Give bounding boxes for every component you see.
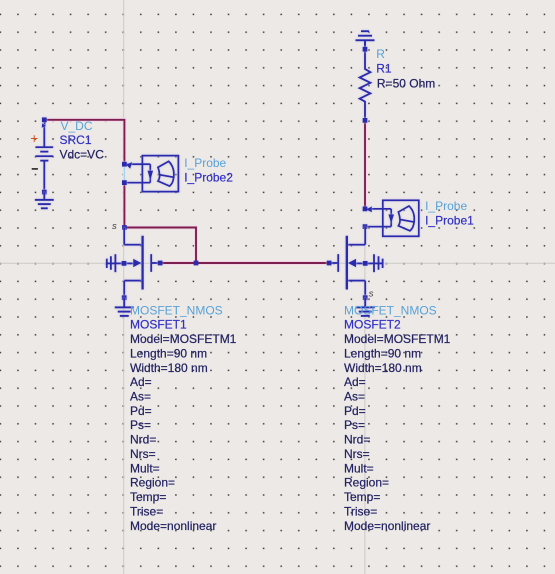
svg-text:V_DC: V_DC: [61, 119, 93, 133]
I_Probe1 direction arrows and node squares: [363, 206, 394, 229]
svg-text:Model=MOSFETM1: Model=MOSFETM1: [344, 332, 451, 346]
svg-text:As=: As=: [344, 390, 365, 404]
SRC1 minus polarity mark: [32, 168, 38, 170]
svg-text:Mode=nonlinear: Mode=nonlinear: [130, 519, 216, 533]
svg-text:MOSFET2: MOSFET2: [344, 318, 401, 332]
svg-text:Pd=: Pd=: [344, 404, 366, 418]
svg-text:I_Probe1: I_Probe1: [425, 214, 474, 228]
svg-text:Temp=: Temp=: [344, 490, 380, 504]
svg-text:I_Probe2: I_Probe2: [184, 171, 233, 185]
svg-text:Length=90 nm: Length=90 nm: [344, 346, 421, 360]
svg-text:Region=: Region=: [344, 476, 389, 490]
svg-text:MOSFET_NMOS: MOSFET_NMOS: [130, 303, 223, 317]
svg-text:Nrs=: Nrs=: [130, 447, 156, 461]
wire: gate bus MOSFET1 to MOSFET2: [160, 261, 329, 265]
transistor MOSFET1: [107, 228, 161, 298]
ground (MOSFET2 source): [356, 298, 375, 316]
svg-text:+: +: [30, 131, 38, 146]
MOSFET2 parameter list: [344, 303, 451, 533]
svg-text:Mode=nonlinear: Mode=nonlinear: [344, 519, 430, 533]
wire: SRC1 plus to I_Probe2 input: [44, 120, 124, 164]
svg-text:s: s: [369, 288, 374, 299]
svg-text:Ad=: Ad=: [344, 375, 366, 389]
wire: through I_Probe2 (highlighted): [123, 164, 126, 183]
svg-text:Width=180 nm: Width=180 nm: [130, 361, 208, 375]
wire: R1 to I_Probe1 input: [363, 120, 367, 208]
svg-text:MOSFET_NMOS: MOSFET_NMOS: [344, 303, 437, 317]
svg-text:Mult=: Mult=: [344, 461, 374, 475]
svg-text:Trise=: Trise=: [130, 504, 163, 518]
svg-text:Ad=: Ad=: [130, 375, 152, 389]
svg-text:Width=180 nm: Width=180 nm: [344, 361, 422, 375]
svg-text:SRC1: SRC1: [60, 133, 92, 147]
current probe I_Probe1: [365, 200, 419, 236]
svg-text:R=50 Ohm: R=50 Ohm: [377, 76, 435, 90]
svg-text:As=: As=: [130, 390, 151, 404]
transistor MOSFET2: [329, 227, 383, 298]
svg-text:Ps=: Ps=: [344, 418, 365, 432]
wire: node s to gate bus: [124, 228, 196, 264]
svg-text:I_Probe: I_Probe: [425, 199, 467, 213]
dc voltage source SRC1: [35, 120, 53, 192]
svg-text:Nrd=: Nrd=: [344, 433, 370, 447]
svg-text:Length=90 nm: Length=90 nm: [130, 346, 207, 360]
ground (SRC1): [35, 192, 54, 208]
svg-text:Pd=: Pd=: [130, 404, 152, 418]
svg-text:Nrs=: Nrs=: [344, 447, 370, 461]
svg-text:I_Probe: I_Probe: [184, 156, 226, 170]
R1 pin node squares: [363, 47, 368, 123]
wire: I_Probe2 output to node s: [122, 183, 126, 228]
svg-text:Region=: Region=: [130, 476, 175, 490]
svg-text:Nrd=: Nrd=: [130, 433, 156, 447]
ground (top of R1): [356, 31, 375, 49]
svg-text:Mult=: Mult=: [130, 461, 160, 475]
svg-text:Trise=: Trise=: [344, 504, 377, 518]
svg-text:R1: R1: [376, 61, 392, 75]
node s (MOSFET1 drain junction): [112, 221, 127, 232]
svg-text:s: s: [112, 221, 117, 232]
I_Probe2 direction arrows and node squares: [122, 162, 153, 185]
svg-text:Temp=: Temp=: [130, 490, 166, 504]
svg-text:Model=MOSFETM1: Model=MOSFETM1: [130, 332, 237, 346]
svg-text:Vdc=VC: Vdc=VC: [60, 148, 105, 162]
svg-text:MOSFET1: MOSFET1: [130, 318, 187, 332]
ground (MOSFET1 source): [115, 298, 134, 316]
svg-text:R: R: [376, 47, 385, 61]
MOSFET1 parameter list: [130, 303, 237, 533]
current probe I_Probe2: [124, 156, 178, 192]
SRC1 pin node squares: [42, 117, 47, 194]
node: gate bus junction: [194, 261, 199, 266]
resistor R1: [360, 49, 371, 120]
svg-text:Ps=: Ps=: [130, 418, 151, 432]
